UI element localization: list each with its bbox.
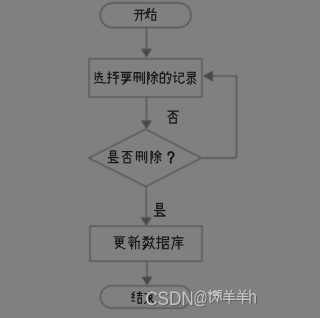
label 是否删除? text [108, 151, 173, 163]
wire: arrow from process box 2 to terminator 结束 [142, 261, 153, 285]
label 是 (yes) [154, 204, 165, 216]
label 否 (no) [168, 111, 178, 123]
process box 更新数据库 [90, 226, 202, 261]
label 选择要删除的记录 text [95, 72, 196, 85]
svg-text:@: @ [193, 288, 208, 308]
svg-text:h: h [248, 287, 257, 308]
decision diamond 是否删除? [89, 129, 202, 186]
wire: arrow from diamond to process box 2 (yes branch) [141, 187, 152, 227]
label 开始 text [134, 8, 156, 20]
label 结束 text [132, 292, 154, 304]
watermark CSDN @懒羊羊h [145, 287, 257, 309]
label 更新数据库 text [114, 236, 183, 250]
wire: feedback loop (no branch) right side [202, 71, 236, 158]
wire: arrow from 开始 to process box [141, 28, 152, 58]
terminator 开始 (start) [100, 3, 191, 28]
svg-text:CSDN: CSDN [145, 289, 194, 310]
process box 选择要删除的记录 [89, 59, 202, 97]
watermark shadow layer [146, 289, 258, 311]
wire: arrow from process box to decision diamond [141, 97, 152, 129]
terminator 结束 (end) [101, 286, 192, 308]
watermark CJK glyphs 懒羊羊 [209, 290, 249, 303]
